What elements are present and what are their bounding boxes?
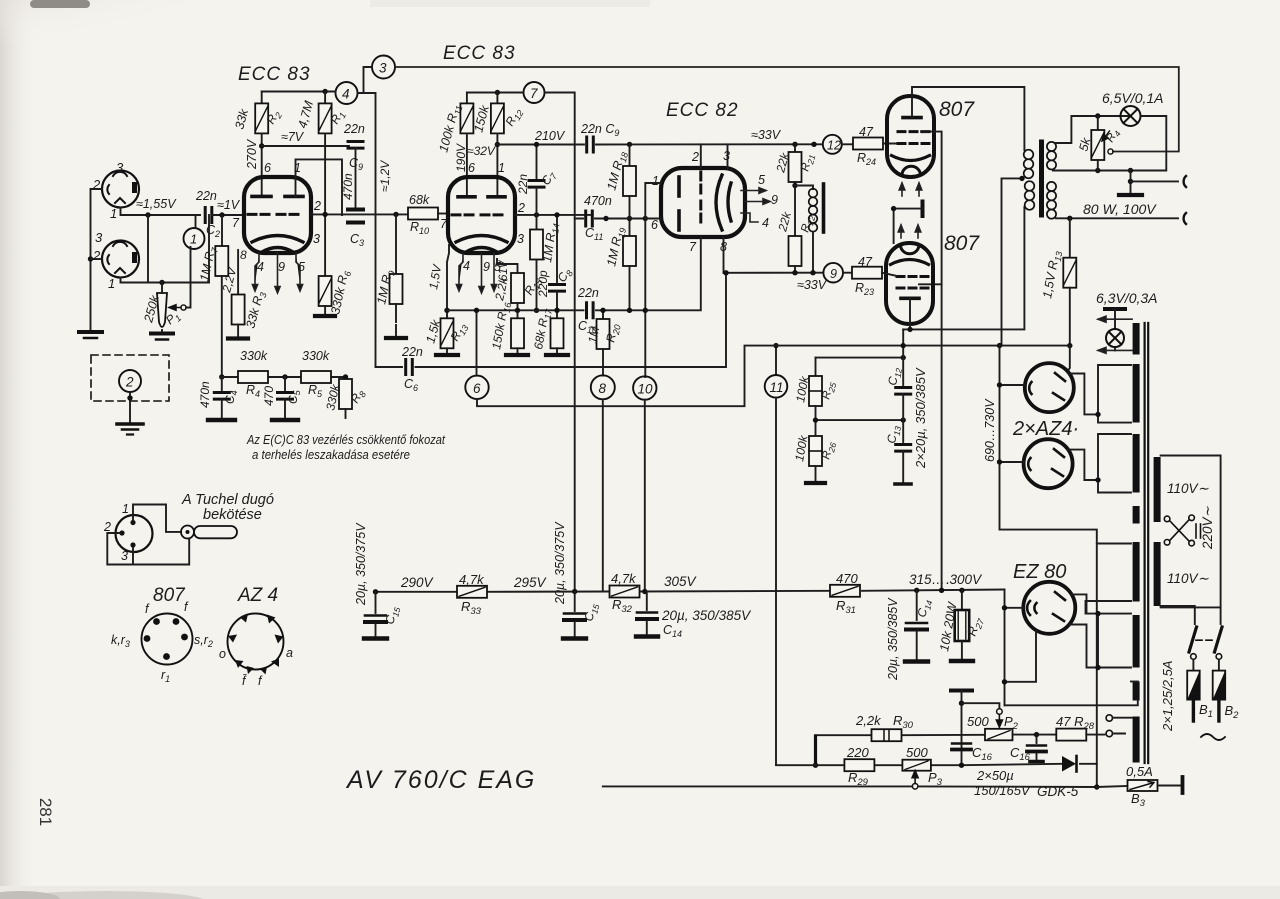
wire: AZ4#1 anode feed from 345 line: [1068, 346, 1070, 372]
resistor R29 220: [844, 759, 874, 771]
screen supply drop to 300V rail: [941, 284, 943, 590]
capacitor C12: [896, 388, 911, 395]
junction R5/R8: [343, 374, 348, 379]
svg-text:7: 7: [440, 217, 448, 231]
svg-text:110V∼: 110V∼: [1167, 481, 1210, 496]
svg-text:2: 2: [92, 248, 101, 263]
svg-text:AV 760/C EAG: AV 760/C EAG: [345, 766, 536, 794]
winding bar seg6 EZ80 heater: [1133, 615, 1140, 668]
winding7 top tap: [1131, 681, 1138, 683]
wire: jack1 pin1 down and right to C2: [121, 208, 201, 216]
tube1 cathode arc: [252, 236, 303, 253]
mains box outline: [1161, 456, 1221, 608]
svg-text:6,3V/0,3A: 6,3V/0,3A: [1096, 290, 1158, 306]
svg-text:ECC 83: ECC 83: [238, 64, 311, 85]
feedback line y=367 with C6: [376, 274, 727, 368]
node circle 11: [775, 346, 777, 375]
svg-text:295V: 295V: [513, 575, 548, 590]
wire: R27 bottom to ground: [961, 641, 963, 659]
junction R18 top: [627, 142, 632, 147]
tube ECC83 #2 envelope: [448, 177, 515, 253]
wire: R14 bottom to cathode line: [536, 260, 538, 311]
wire: R11 top lead: [466, 93, 468, 104]
resistor R9 1M: [390, 274, 403, 304]
beam plate wire: [894, 209, 923, 243]
svg-text:1: 1: [110, 206, 117, 221]
svg-text:5: 5: [758, 173, 765, 187]
svg-text:210V: 210V: [534, 129, 566, 143]
svg-text:Az E(C)C 83 vezérlés csökkentő: Az E(C)C 83 vezérlés csökkentő fokozat: [246, 433, 445, 447]
resistor R24 47: [842, 143, 853, 145]
potentiometer P1 250k (tapered): [157, 293, 167, 327]
svg-text:330k: 330k: [302, 349, 330, 363]
capacitor C13: [896, 445, 911, 452]
ground under C4: [208, 418, 235, 422]
wire: pin7 stub down to cathode line: [645, 237, 701, 310]
junction R13 top / cathode line: [444, 308, 449, 313]
resistor R14 1M: [536, 215, 538, 230]
807#1 grid dashes g1: [898, 142, 929, 145]
svg-text:315…․300V: 315…․300V: [909, 572, 983, 587]
node circle 2: [119, 370, 141, 392]
wire: lower secondary to lower terminal: [1056, 217, 1178, 219]
node circle 3: [372, 56, 395, 79]
fuse B1 bottom stub: [1192, 700, 1195, 721]
resistor R15 2,2k: [511, 273, 524, 303]
tube2 plate bars: [458, 195, 505, 199]
svg-text:690…730V: 690…730V: [983, 398, 997, 462]
svg-text:≈1V: ≈1V: [217, 198, 241, 212]
tube1 plate bars: [252, 195, 303, 199]
tube ECC82 envelope: [661, 168, 745, 237]
svg-text:807: 807: [153, 585, 186, 606]
winding bar seg8 bias: [1133, 717, 1140, 763]
ECC82 cathode arc (right bulge): [716, 175, 731, 230]
svg-text:≈33V: ≈33V: [751, 128, 782, 142]
R30 line: [816, 734, 986, 736]
junction 345 line / HT bus: [997, 343, 1002, 348]
807#1 grid dashes g2: [898, 130, 929, 133]
wire: pin1/pin6 bracket: [645, 183, 661, 377]
heater T-bar: [1105, 307, 1125, 311]
290V rail wire: [376, 590, 1005, 592]
resistor R33 4,7k: [457, 586, 487, 598]
svg-text:9: 9: [771, 193, 778, 207]
output transformer core: [1039, 142, 1044, 215]
resistor R19 1M: [623, 236, 636, 266]
svg-text:305V: 305V: [664, 574, 698, 589]
svg-text:281: 281: [36, 798, 55, 826]
junction R13b top: [1067, 216, 1072, 221]
switch link dashes: [1196, 639, 1212, 641]
wire: C4 to ground: [221, 399, 223, 418]
AZ4#1 filament marks: [1029, 373, 1065, 400]
wire: upper secondary top to lamp node: [1056, 116, 1130, 143]
input jack J2: [102, 241, 139, 278]
mains switch blade 1: [1161, 606, 1195, 624]
wire: C5 to ground: [284, 399, 286, 418]
wire: R15 bottom to R16: [515, 303, 518, 318]
wire: C13 bottom: [902, 451, 904, 482]
wire: pin3 plate up to 33V line: [727, 144, 729, 168]
resistor R20 1M: [602, 310, 604, 319]
svg-text:20µ, 350/375V: 20µ, 350/375V: [354, 522, 368, 606]
ground under R16: [506, 353, 528, 357]
svg-text:20µ, 350/385V: 20µ, 350/385V: [661, 608, 752, 623]
807#2 cathode arc (top): [891, 260, 929, 265]
resistor R8 330k: [339, 379, 352, 409]
svg-text:8: 8: [240, 248, 247, 262]
svg-text:22n C9: 22n C9: [580, 122, 619, 138]
EZ80 filament marks: [1027, 592, 1065, 621]
svg-text:807: 807: [944, 232, 980, 255]
svg-text:9: 9: [278, 260, 285, 274]
wire: R1 top lead: [324, 92, 326, 104]
potentiometer P3 500: [902, 760, 931, 771]
svg-text:3: 3: [379, 61, 387, 76]
wire: pin5 elbow down to R15: [497, 259, 518, 273]
HV winding top bracket: [1098, 365, 1131, 423]
winding bar seg7: [1133, 682, 1140, 701]
svg-text:2×1,25/2,5A: 2×1,25/2,5A: [1160, 661, 1175, 732]
svg-text:6: 6: [473, 381, 481, 396]
svg-text:68k: 68k: [409, 193, 430, 207]
svg-text:22n: 22n: [401, 345, 423, 359]
wire: node11 column down: [775, 398, 777, 765]
svg-text:A Tuchel dugó: A Tuchel dugó: [181, 492, 274, 508]
coil core bar: [822, 184, 826, 232]
wire: stub down from C2 left area to jack2 line: [208, 215, 210, 283]
node circle 9: [823, 263, 843, 283]
thick stub joining R30 line to L2: [814, 736, 817, 765]
tube AZ4 #1: [1025, 363, 1074, 412]
ground under R17: [546, 353, 568, 357]
wire: coil bottom to 33V lower wire: [812, 232, 814, 273]
capacitor C10 22n (in cathode line): [587, 303, 594, 318]
wire: 210V line to ECC82: [497, 143, 821, 145]
svg-text:1: 1: [498, 161, 505, 175]
svg-text:3: 3: [313, 232, 320, 246]
ECC82 pin labels: [651, 149, 778, 254]
wire: R25 top bracket to C12: [816, 357, 904, 359]
wire: R7 column from C2 junction: [221, 215, 223, 246]
junction C14b: [914, 588, 919, 593]
capacitor C5 470: [284, 377, 286, 390]
807#2 plate lead to transformer: [903, 207, 1024, 329]
ground under R9: [386, 336, 406, 340]
tube1 heater arrows pins 4,9,5: [252, 253, 302, 293]
Tuchel pin labels: [103, 502, 129, 563]
resistor R11 100k: [460, 103, 473, 133]
ground under R27: [951, 659, 973, 663]
heater winding link: [1097, 614, 1099, 668]
resistor R25 100k: [815, 358, 817, 376]
primary bar lower 110V: [1154, 542, 1161, 606]
resistor R6 330k: [319, 276, 332, 306]
HT bus down: [1000, 346, 1097, 787]
Tuchel wiring top: [133, 505, 181, 532]
svg-text:110V∼: 110V∼: [1167, 571, 1210, 586]
wire: R28 to contacts: [1086, 734, 1104, 736]
svg-text:7: 7: [232, 216, 240, 230]
fuse B3: [1097, 786, 1128, 787]
svg-text:47: 47: [859, 125, 874, 139]
807#1 plate lead to transformer: [912, 87, 1024, 150]
svg-text:500: 500: [906, 745, 928, 760]
svg-text:2,2k: 2,2k: [855, 713, 882, 728]
winding bar seg4 small: [1133, 506, 1140, 524]
wire: R11 bottom into plate 1: [466, 133, 468, 196]
ground under R3: [228, 336, 248, 340]
wire: node3 left lead down to node4 line: [364, 67, 373, 93]
svg-text:bekötése: bekötése: [203, 507, 262, 523]
svg-text:0,5A: 0,5A: [1126, 764, 1153, 779]
tube 807 #2 envelope: [886, 243, 933, 324]
wire: node1 stub up: [195, 215, 197, 228]
svg-text:ECC 83: ECC 83: [443, 43, 516, 64]
heater lamp feed: [1114, 309, 1116, 350]
ECC82 plate bars (vertical): [677, 177, 681, 230]
output terminal lower: [1184, 213, 1186, 224]
fuse B1: [1192, 660, 1194, 671]
svg-text:2: 2: [125, 375, 134, 390]
resistor R5 330k: [301, 371, 331, 383]
svg-text:290V: 290V: [400, 575, 435, 590]
primary bar upper 110V: [1154, 457, 1161, 522]
svg-text:47: 47: [858, 255, 873, 269]
tube2 cathode arc: [456, 236, 507, 253]
resistor R10 68k: [408, 208, 438, 220]
lower 33V wire: [724, 272, 824, 274]
wire: node10 column down: [644, 400, 646, 591]
svg-text:22n: 22n: [577, 286, 599, 300]
wire: R25-R26 mid junction to C13: [816, 406, 904, 436]
Tuchel socket circle: [116, 515, 153, 552]
svg-text:3: 3: [121, 549, 128, 563]
svg-text:≈1,2V: ≈1,2V: [378, 160, 392, 192]
tube1 pin labels 6 1 7 2 3 4 9 5: [232, 161, 321, 274]
svg-text:4,7k: 4,7k: [459, 572, 485, 587]
AZ4#2 filament marks: [1028, 449, 1064, 476]
wire: R20 bottom to node 8: [602, 349, 604, 376]
wire: C11 leads: [575, 218, 646, 220]
winding bar seg5: [1133, 542, 1140, 602]
807#2 grid dashes g1: [897, 275, 928, 278]
junction C2-R7: [219, 212, 224, 217]
wire: left ground bus from jacks: [91, 189, 103, 331]
winding bar seg3 HV lower: [1133, 434, 1140, 493]
mains tilde: [1201, 734, 1225, 740]
diode GDK-5: [1062, 756, 1077, 772]
junction P1 top: [159, 280, 164, 285]
wire: cathode pin8 lead down to R3: [237, 250, 239, 295]
wire: C12 column from plate line: [902, 329, 904, 385]
wire: grid row from tube to R10: [311, 133, 408, 276]
svg-text:3: 3: [517, 232, 524, 246]
junction R27: [959, 588, 964, 593]
ground under R26: [806, 481, 825, 485]
junction screen column: [939, 588, 944, 593]
807#2 heater arrows (up, above tube): [898, 225, 921, 238]
svg-text:6: 6: [264, 161, 271, 175]
potentiometer P2 box: [985, 729, 1013, 741]
wire: node2 to earth: [129, 392, 131, 424]
svg-text:AZ 4: AZ 4: [237, 585, 278, 606]
svg-text:4: 4: [463, 259, 470, 273]
wire: R10 right into tube2: [438, 213, 449, 215]
svg-text:22n: 22n: [516, 174, 530, 195]
capacitor C8 220p: [556, 215, 558, 282]
capacitor C15a 20u: [375, 592, 377, 613]
wire: R2 bottom to 7V node and into plate: [261, 133, 263, 196]
svg-text:6: 6: [651, 218, 658, 232]
svg-text:220V∼: 220V∼: [1200, 505, 1215, 550]
wire: link C9 to C3: [355, 148, 357, 207]
heater arrow upper (left): [1098, 316, 1132, 322]
junction R7/R4/C4: [219, 374, 224, 379]
junction 270V node: [259, 143, 264, 148]
EZ80 output loop to winding7: [1005, 701, 1138, 706]
tube2 pin labels: [440, 161, 525, 274]
wire: lamp right to loop bottom: [1053, 116, 1166, 171]
ground under left bus: [79, 332, 102, 338]
wire: pin2 from 210V line down into tube: [700, 144, 702, 168]
capacitor C15b 20u: [574, 592, 576, 612]
svg-text:9: 9: [830, 267, 837, 281]
wire: ~7V line to C9: [262, 145, 349, 147]
wire: R18 bottom to 470n junction: [629, 196, 631, 236]
cathode feedback line y=310: [447, 309, 645, 311]
winding bar seg1 6,3V: [1133, 323, 1140, 355]
dashed box node 2: [91, 355, 169, 401]
junction R1 top: [322, 89, 327, 94]
potentiometer 5k R (vertical): [1097, 116, 1099, 130]
wire: R22 bottom to 33V lower wire: [794, 266, 796, 273]
wire: EZ80 anode bottom-right: [1069, 625, 1131, 668]
svg-text:22n: 22n: [195, 189, 217, 203]
tube1 plate 2 lead: [295, 177, 297, 196]
svg-text:≈1,55V: ≈1,55V: [136, 197, 177, 211]
tube EZ80: [1023, 582, 1075, 634]
svg-text:11: 11: [770, 380, 784, 395]
wire: C2 right to tube grid: [212, 214, 244, 216]
svg-text:≈7V: ≈7V: [281, 130, 305, 144]
tube1 grid dashes: [248, 213, 298, 216]
svg-text:330k: 330k: [240, 349, 268, 363]
wire: R6 bottom to ground: [324, 306, 326, 314]
svg-text:2: 2: [517, 201, 525, 215]
svg-text:4: 4: [762, 216, 769, 230]
resistor R32 4,7k: [610, 586, 640, 598]
resistor R28 47: [1056, 729, 1086, 741]
secondary winding lower (100V): [1047, 182, 1056, 219]
svg-text:1: 1: [652, 174, 659, 188]
svg-text:80 W, 100V: 80 W, 100V: [1083, 201, 1157, 217]
node circle 4: [336, 82, 358, 104]
resistor R13b 1,5V dropper: [1063, 258, 1076, 288]
svg-text:2×AZ4·: 2×AZ4·: [1012, 418, 1079, 440]
wire: C8 bottom to R17: [556, 292, 558, 319]
resistor R7 1M: [215, 246, 228, 276]
resistor R12 150k: [491, 103, 504, 133]
node circle 8: [591, 375, 615, 399]
svg-text:7: 7: [530, 86, 538, 101]
tube2 grid dashes: [452, 213, 502, 216]
resistor R4 330k: [238, 371, 268, 383]
monitor coil branch: [795, 186, 813, 190]
ground under R6: [315, 314, 335, 318]
svg-text:2×50µ: 2×50µ: [976, 768, 1014, 783]
screen tie line 807s: [919, 132, 942, 285]
wire: EZ80 bottom-left lead: [1005, 632, 1037, 682]
fuse B2 bottom stub: [1217, 700, 1220, 721]
svg-text:3: 3: [95, 230, 103, 245]
svg-text:150/165V: 150/165V: [974, 783, 1031, 798]
bias T-bar: [951, 689, 972, 693]
junction R9 top: [393, 212, 398, 217]
capacitor C16a (on bias column): [952, 744, 971, 750]
wire: cathode pin9 lead to R13: [447, 245, 449, 318]
wire: node7 rail left to R11/R12, right to long column: [467, 93, 575, 592]
resistor R23 47: [843, 272, 852, 274]
svg-text:2: 2: [313, 199, 321, 213]
capacitor C3 470n: [348, 210, 363, 223]
807 base pin labels: [111, 600, 213, 684]
wire: R8 bottom stub: [345, 409, 347, 418]
svg-text:2: 2: [103, 520, 111, 534]
resistor R1 4,7M: [319, 103, 332, 133]
wire: R17 bottom to ground: [556, 348, 558, 353]
primary center tap: [1002, 178, 1023, 345]
resistor R27 10k 20W: [961, 590, 963, 610]
svg-text:470: 470: [836, 571, 858, 586]
wire: P2 to R28: [1013, 734, 1057, 736]
node circle 6: [476, 310, 478, 375]
ground under R13: [436, 353, 458, 357]
svg-text:1: 1: [122, 502, 129, 516]
wire: R4 row: [222, 376, 346, 378]
svg-text:3: 3: [723, 149, 730, 163]
svg-text:≈33V: ≈33V: [797, 278, 828, 292]
wire: R9 column: [395, 214, 397, 274]
svg-text:22n: 22n: [343, 122, 365, 136]
svg-text:3: 3: [116, 160, 124, 175]
junction C7/R14 column: [534, 212, 539, 217]
contact circles to winding8: [1106, 730, 1112, 736]
wire: P1 bottom to ground: [161, 330, 163, 332]
resistor R13 1,5k: [441, 318, 454, 348]
winding5 taps: [1086, 544, 1132, 614]
5k pot wiper arrow: [1102, 131, 1110, 141]
wire: EZ80 cathode left lead to rail corner: [1005, 590, 1024, 706]
wire: anode top rail (R2,R1 to node4): [262, 92, 376, 368]
capacitor C16b under P2/R28 junction: [1036, 735, 1038, 743]
HV winding bottom bracket: [1098, 434, 1131, 493]
resistor R17 68k: [551, 318, 564, 348]
svg-text:ECC 82: ECC 82: [666, 100, 739, 121]
wire: R21 bottom to R22: [794, 182, 796, 236]
end bar under C13: [895, 482, 911, 486]
resistor R30 2,2k: [872, 729, 902, 741]
wire: EZ80 anode top-right: [1072, 594, 1132, 613]
svg-text:EZ 80: EZ 80: [1013, 561, 1066, 583]
tube2 heater arrows: [456, 253, 496, 293]
wire: R12 top lead: [496, 93, 498, 104]
svg-text:9: 9: [483, 260, 490, 274]
svg-text:≈32V: ≈32V: [467, 144, 496, 158]
svg-text:20µ, 350/385V: 20µ, 350/385V: [886, 597, 900, 681]
svg-text:807: 807: [939, 98, 975, 121]
